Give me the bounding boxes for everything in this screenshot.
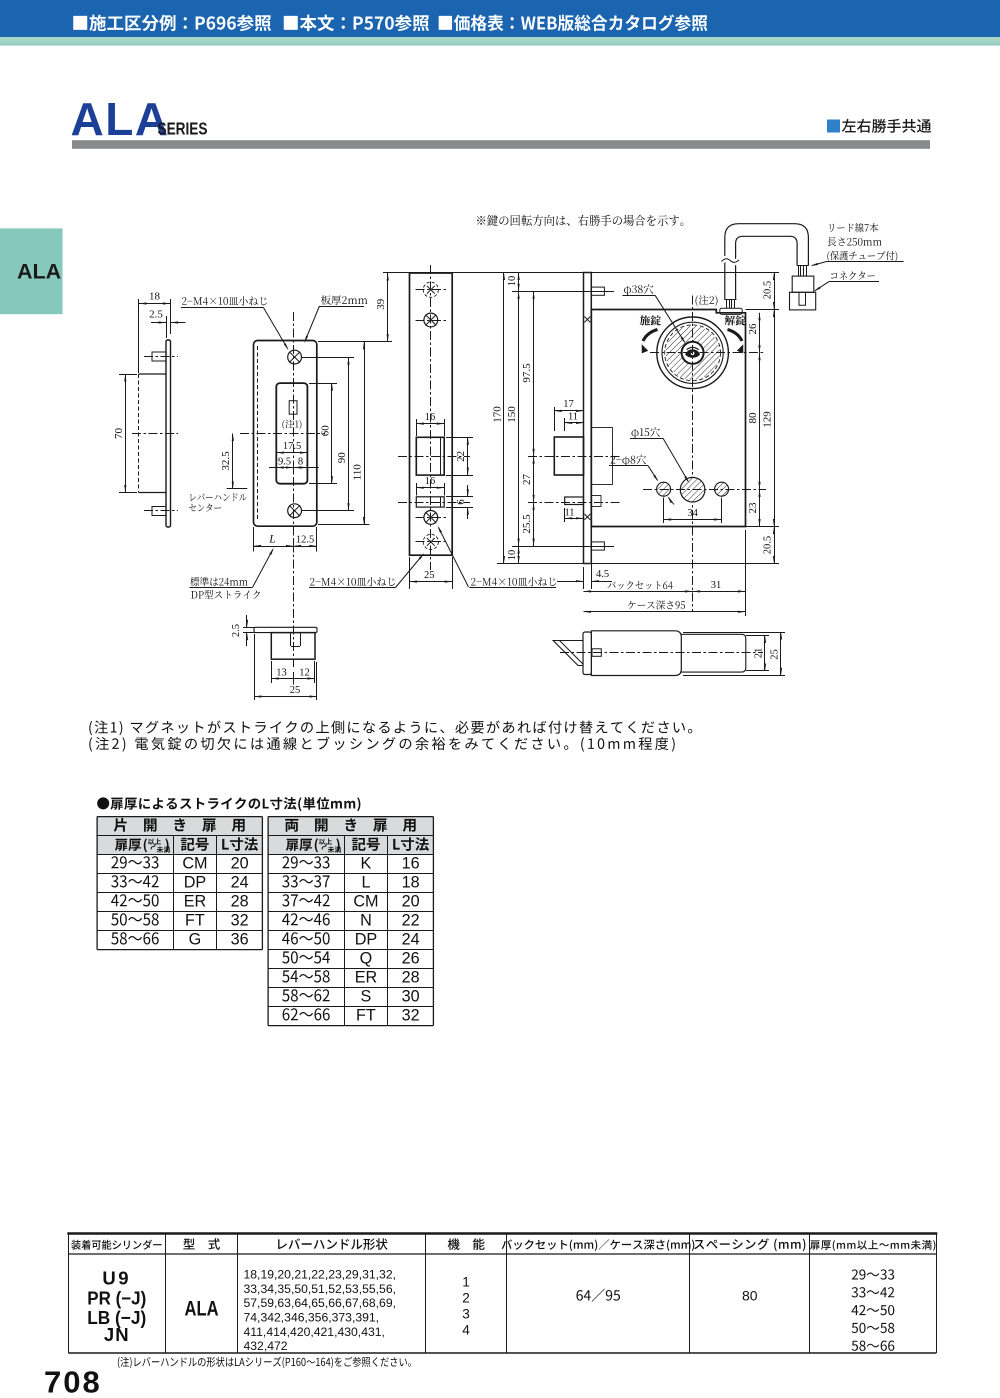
latch window bbox=[289, 401, 297, 415]
extension lines left bbox=[383, 272, 584, 274]
dim 129 bbox=[774, 310, 776, 527]
holes 2-phi8 bbox=[657, 482, 671, 496]
dim 16 top bbox=[416, 419, 418, 436]
latch bolt side bbox=[554, 437, 583, 475]
wire bundle into connector bbox=[798, 266, 800, 277]
svg-text:34: 34 bbox=[687, 508, 698, 519]
latch opening bbox=[416, 437, 444, 475]
svg-text:ER: ER bbox=[355, 968, 378, 986]
svg-text:33,34,35,50,51,52,53,55,56,: 33,34,35,50,51,52,53,55,56, bbox=[244, 1282, 396, 1296]
label standard 24mm DP strike bbox=[190, 577, 247, 586]
svg-text:25: 25 bbox=[290, 685, 301, 696]
svg-text:K: K bbox=[361, 854, 372, 872]
svg-text:ER: ER bbox=[184, 892, 207, 910]
header bar text bbox=[73, 15, 271, 32]
deadbolt guide box bbox=[591, 496, 601, 507]
dim 31 bbox=[693, 591, 746, 593]
table headers bbox=[71, 1240, 161, 1250]
keyhole bbox=[685, 349, 700, 358]
dim 11 latch bbox=[564, 418, 566, 431]
tube break mark bbox=[722, 259, 740, 263]
svg-text:24: 24 bbox=[231, 873, 249, 891]
svg-text:1: 1 bbox=[462, 1275, 470, 1290]
dim 80 bbox=[759, 353, 761, 490]
svg-text:S: S bbox=[361, 987, 372, 1005]
hole phi15 bbox=[680, 477, 705, 502]
note1 ref bbox=[282, 420, 301, 430]
strike bottom latch notch bbox=[290, 633, 292, 646]
svg-text:32: 32 bbox=[231, 911, 249, 929]
label plate thickness 2mm bbox=[321, 295, 368, 305]
dim 90 bbox=[302, 357, 354, 359]
case cover bottom view bbox=[591, 631, 681, 676]
svg-text:31: 31 bbox=[711, 580, 722, 591]
leader right screw label bbox=[439, 528, 469, 588]
case body bottom view bbox=[591, 634, 746, 672]
svg-text:60: 60 bbox=[319, 425, 331, 437]
svg-text:12: 12 bbox=[299, 668, 310, 679]
stub bottom view bbox=[592, 649, 601, 657]
dim 20.5 top bbox=[774, 273, 776, 310]
svg-text:DP: DP bbox=[184, 873, 207, 891]
svg-text:SERIES: SERIES bbox=[158, 119, 208, 139]
extension lines right bbox=[591, 272, 779, 274]
deadbolt opening bbox=[416, 497, 444, 507]
top blue header bar bbox=[0, 0, 1000, 37]
svg-text:150: 150 bbox=[506, 406, 518, 423]
right label 左右勝手共通 bbox=[827, 120, 840, 133]
svg-text:4.5: 4.5 bbox=[596, 569, 609, 580]
strike screw top bbox=[288, 350, 302, 364]
svg-text:22: 22 bbox=[402, 911, 420, 929]
svg-text:Q: Q bbox=[360, 949, 373, 967]
svg-text:32: 32 bbox=[402, 1006, 420, 1024]
svg-text:L: L bbox=[361, 873, 370, 891]
dim 60 bbox=[309, 383, 337, 385]
svg-text:L: L bbox=[268, 534, 275, 546]
bottom dims L / 12.5 bbox=[253, 527, 255, 552]
svg-text:27: 27 bbox=[521, 474, 533, 486]
svg-text:708: 708 bbox=[44, 1365, 102, 1398]
svg-text:16: 16 bbox=[402, 854, 420, 872]
svg-text:ALA: ALA bbox=[185, 1298, 219, 1321]
svg-text:12.5: 12.5 bbox=[296, 535, 314, 546]
dim 170 bbox=[503, 273, 505, 564]
svg-text:3: 3 bbox=[462, 1307, 470, 1322]
svg-text:432,472: 432,472 bbox=[244, 1339, 288, 1353]
svg-text:18: 18 bbox=[402, 873, 420, 891]
svg-text:8: 8 bbox=[298, 457, 303, 468]
svg-text:4: 4 bbox=[462, 1323, 470, 1338]
svg-text:ALA: ALA bbox=[17, 260, 61, 284]
right L table (double door) bbox=[268, 817, 433, 855]
dim 25.5 bbox=[533, 502, 535, 546]
lock faceplate front view bbox=[410, 273, 453, 555]
wire bundle into case bbox=[726, 300, 728, 308]
svg-text:ALA: ALA bbox=[71, 93, 170, 145]
strike box side view bbox=[139, 373, 167, 375]
dim 16 lower bbox=[416, 483, 418, 496]
svg-text:90: 90 bbox=[336, 452, 348, 464]
lock direction arrows bbox=[640, 315, 661, 325]
bottom screw bbox=[424, 511, 438, 525]
dim 17.5 bbox=[276, 452, 307, 454]
svg-text:PR (−J): PR (−J) bbox=[87, 1288, 146, 1309]
dim case depth 95 bbox=[745, 530, 747, 616]
faceplate screw hole marks bbox=[585, 317, 591, 323]
dim 4.5 bbox=[583, 567, 585, 589]
svg-text:18: 18 bbox=[149, 291, 161, 303]
bottom countersunk hole (dashed) bbox=[423, 534, 438, 549]
svg-text:20: 20 bbox=[402, 892, 420, 910]
strike cutout bbox=[276, 383, 307, 484]
svg-text:32.5: 32.5 bbox=[220, 451, 232, 471]
svg-text:DP: DP bbox=[355, 930, 378, 948]
dim 25 bottom view bbox=[683, 632, 785, 634]
dim 27 bbox=[533, 456, 535, 502]
svg-text:23: 23 bbox=[747, 502, 759, 514]
svg-text:57,59,63,64,65,66,67,68,69,: 57,59,63,64,65,66,67,68,69, bbox=[244, 1296, 396, 1310]
cylinder centerlines bbox=[650, 352, 764, 354]
svg-text:170: 170 bbox=[491, 406, 503, 423]
col7 door thickness bbox=[852, 1269, 894, 1279]
svg-text:10: 10 bbox=[507, 276, 518, 287]
svg-text:36: 36 bbox=[231, 930, 249, 948]
dim 70 bbox=[119, 374, 137, 376]
cable labels bbox=[829, 223, 878, 232]
dim 6 bbox=[446, 496, 473, 498]
col5 backset bbox=[576, 1289, 620, 1302]
svg-text:20.5: 20.5 bbox=[762, 281, 773, 299]
dim 18 bbox=[138, 299, 140, 373]
dim 11 deadbolt bbox=[564, 508, 566, 522]
svg-text:16: 16 bbox=[425, 412, 436, 423]
tables heading bbox=[97, 797, 360, 811]
teal strip under header bbox=[0, 37, 1000, 46]
dim 150 bbox=[518, 291, 520, 546]
svg-text:20: 20 bbox=[231, 854, 249, 872]
cylinder hole phi38 bbox=[657, 317, 729, 389]
dim 10 top bbox=[518, 273, 520, 292]
svg-text:21: 21 bbox=[753, 648, 764, 659]
svg-text:9.5: 9.5 bbox=[278, 457, 291, 468]
dim 25 faceplate bbox=[409, 557, 411, 589]
svg-text:28: 28 bbox=[402, 968, 420, 986]
lock faceplate edge view bbox=[584, 273, 592, 564]
dim 39 bbox=[383, 272, 410, 274]
dim 32.5 bbox=[227, 488, 248, 490]
label phi15 bbox=[631, 427, 660, 438]
svg-text:30: 30 bbox=[402, 987, 420, 1005]
svg-text:39: 39 bbox=[375, 298, 387, 310]
left L table (single door) bbox=[97, 817, 262, 855]
svg-text:11: 11 bbox=[564, 507, 574, 518]
left teal ALA tab bbox=[0, 228, 63, 314]
dim 9.5 / 8 bbox=[269, 467, 319, 469]
strike screw bottom bbox=[288, 504, 302, 518]
handle centerline bbox=[132, 433, 178, 435]
label 2-phi8 bbox=[611, 455, 646, 466]
svg-text:G: G bbox=[189, 930, 202, 948]
svg-text:24: 24 bbox=[402, 930, 420, 948]
dim 97.5 bbox=[533, 291, 535, 456]
svg-text:6: 6 bbox=[455, 499, 467, 505]
svg-text:FT: FT bbox=[185, 911, 205, 929]
dim 34 bbox=[663, 498, 665, 524]
dim 17 latch bbox=[554, 407, 556, 431]
svg-text:22: 22 bbox=[455, 451, 467, 462]
dim 2.5 bottom view bbox=[243, 627, 255, 629]
dim 110 bbox=[318, 341, 392, 343]
key rotation note bbox=[477, 215, 683, 226]
svg-text:97.5: 97.5 bbox=[521, 363, 533, 383]
svg-text:JN: JN bbox=[104, 1324, 130, 1345]
latch bolt bottom view bbox=[553, 641, 583, 666]
centerlines bbox=[293, 312, 295, 667]
dim 23 bbox=[759, 489, 761, 526]
svg-text:80: 80 bbox=[747, 412, 759, 424]
gray rule under title bbox=[72, 140, 930, 149]
svg-text:70: 70 bbox=[113, 428, 125, 440]
svg-text:110: 110 bbox=[351, 464, 363, 481]
svg-text:N: N bbox=[360, 911, 372, 929]
label 2-M4x10 screws top bbox=[182, 296, 267, 305]
cable base plate bbox=[720, 308, 742, 314]
dim 21 bbox=[746, 635, 769, 637]
dim 26 bbox=[759, 313, 761, 353]
svg-text:13: 13 bbox=[276, 668, 287, 679]
top screw bbox=[424, 313, 438, 327]
svg-text:129: 129 bbox=[761, 411, 773, 428]
bottom spec table bbox=[67, 1232, 937, 1235]
svg-text:U9: U9 bbox=[102, 1268, 131, 1289]
lock case outline with notch bbox=[591, 310, 745, 527]
dims 13 12 bbox=[271, 661, 273, 683]
strike bottom view plate bbox=[254, 627, 317, 632]
svg-text:10: 10 bbox=[507, 550, 518, 561]
svg-text:16: 16 bbox=[425, 476, 436, 487]
strike screw stub top bbox=[152, 352, 166, 361]
footnote bbox=[118, 1357, 411, 1368]
leader left screw label bbox=[396, 555, 424, 588]
svg-text:25: 25 bbox=[769, 649, 780, 660]
strike bottom view box bbox=[271, 633, 315, 660]
connector bbox=[792, 276, 814, 292]
svg-text:25.5: 25.5 bbox=[521, 514, 533, 534]
dim 2.5 bbox=[166, 316, 168, 338]
strike screw stub bottom bbox=[152, 507, 166, 516]
dim backset 64 bbox=[584, 591, 693, 593]
svg-text:74,342,346,356,373,391,: 74,342,346,356,373,391, bbox=[244, 1310, 380, 1324]
faceplate bottom view bbox=[583, 632, 591, 675]
svg-text:2.5: 2.5 bbox=[231, 624, 242, 637]
svg-text:17: 17 bbox=[563, 399, 574, 410]
dim 22 bbox=[446, 437, 473, 439]
svg-text:18,19,20,21,22,23,29,31,32,: 18,19,20,21,22,23,29,31,32, bbox=[244, 1267, 396, 1281]
label lever handle center bbox=[190, 493, 247, 501]
svg-text:17.5: 17.5 bbox=[283, 441, 301, 452]
top countersunk hole (dashed) bbox=[423, 282, 438, 297]
svg-text:28: 28 bbox=[231, 892, 249, 910]
svg-text:11: 11 bbox=[568, 412, 578, 423]
latch guide box bbox=[591, 428, 612, 485]
svg-text:FT: FT bbox=[356, 1006, 376, 1024]
screw stub top bbox=[591, 287, 604, 295]
note2 ref bbox=[695, 295, 717, 306]
dim 10 bottom bbox=[518, 546, 520, 564]
svg-text:20.5: 20.5 bbox=[762, 536, 773, 554]
svg-text:80: 80 bbox=[742, 1288, 758, 1304]
dim 20.5 bottom bbox=[774, 527, 776, 564]
note 1 bbox=[89, 720, 692, 735]
svg-text:2.5: 2.5 bbox=[149, 309, 163, 321]
deadbolt side bbox=[565, 497, 584, 505]
cable tube bbox=[725, 224, 809, 300]
strike faceplate side view bbox=[166, 340, 171, 527]
screw stub bottom bbox=[591, 542, 604, 550]
centerline bottom view bbox=[560, 652, 763, 654]
svg-text:CM: CM bbox=[353, 892, 378, 910]
label phi38 bbox=[624, 284, 653, 295]
svg-text:CM: CM bbox=[182, 854, 207, 872]
note 2 bbox=[89, 737, 674, 752]
svg-text:25: 25 bbox=[424, 570, 435, 581]
strike plate front view bbox=[254, 341, 317, 527]
svg-text:26: 26 bbox=[402, 949, 420, 967]
dim 25 bbox=[254, 634, 256, 700]
svg-text:2: 2 bbox=[462, 1291, 470, 1306]
svg-text:26: 26 bbox=[747, 323, 759, 335]
svg-text:411,414,420,421,430,431,: 411,414,420,421,430,431, bbox=[244, 1325, 385, 1339]
